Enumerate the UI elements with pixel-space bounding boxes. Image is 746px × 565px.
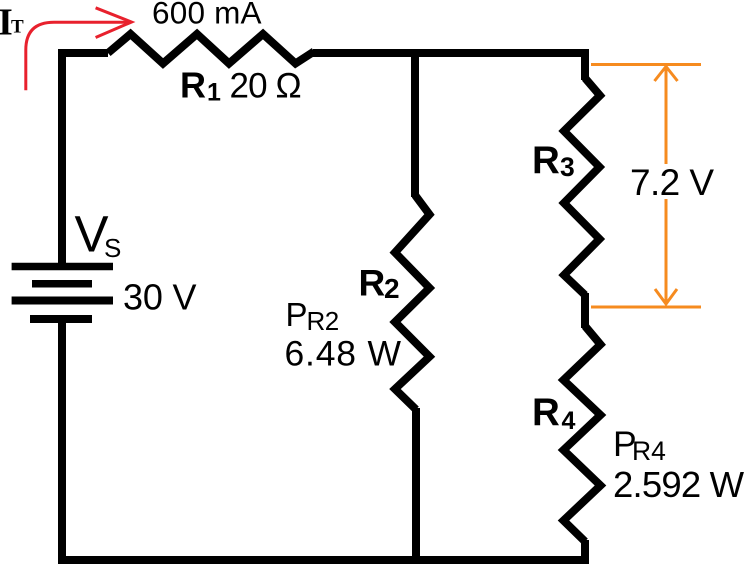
svg-text:7.2 V: 7.2 V [630,162,714,203]
wire: top net from R1 to top-right corner, down to R3 [313,53,585,80]
resistor R2 [395,195,430,410]
current arrow IT head [96,8,132,38]
wire: segment between R3 and R4 (node between R3 and R4) [581,293,589,328]
svg-text:6.48 W: 6.48 W [285,334,402,374]
svg-text:4: 4 [562,407,576,435]
battery VS plate: bottom short negative plate [30,315,92,323]
battery VS plate: upper short negative plate [32,280,92,288]
battery VS plate: lower long positive plate [12,297,113,305]
svg-text:1: 1 [207,79,221,107]
wire: left branch from battery + terminal up to top-left corner and across to R1 [62,53,108,267]
svg-text:R: R [359,262,386,303]
current arrow IT (red) curving from left branch onto R1 [26,22,130,90]
svg-text:600 mA: 600 mA [152,0,262,31]
wire: bottom net from battery - terminal down and across to R4 [62,320,589,560]
svg-text:30 V: 30 V [123,276,196,317]
svg-text:T: T [11,17,24,38]
wire: R2 branch from top net down to R2 [411,53,419,197]
svg-text:R4: R4 [632,436,666,466]
resistor R3 [564,78,600,295]
svg-text:P: P [286,296,308,333]
wire: R2 bottom lead down to bottom net [412,408,420,560]
svg-text:2.592 W: 2.592 W [613,464,745,505]
battery VS plate: top long positive plate [12,263,113,271]
resistor R4 [564,326,601,542]
svg-text:R: R [180,64,206,105]
svg-text:2: 2 [384,273,400,304]
svg-text:3: 3 [560,152,575,182]
svg-text:R: R [532,391,560,434]
voltage annotation arrow 7.2 V (orange double-headed measure) [591,65,701,308]
wire: R4 bottom lead to bottom-right corner [581,540,589,556]
resistor R1 [108,34,314,64]
svg-text:R2: R2 [307,306,339,336]
svg-text:S: S [104,233,121,263]
svg-text:R: R [532,139,560,182]
svg-text:20 Ω: 20 Ω [230,66,301,105]
